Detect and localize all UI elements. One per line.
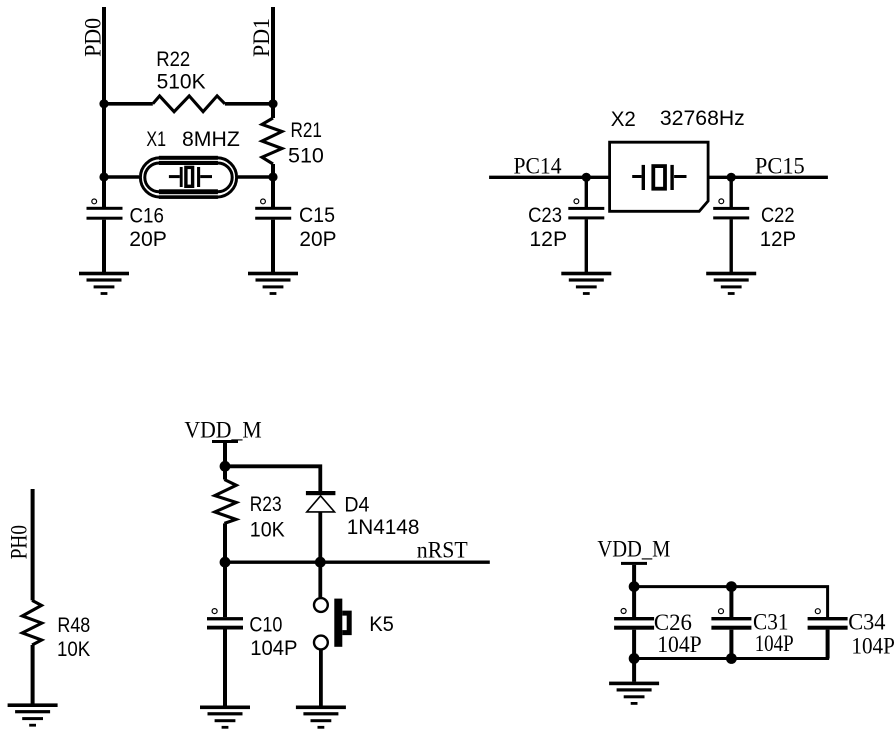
- svg-text:VDD_M: VDD_M: [184, 418, 261, 443]
- C34 ref label: [848, 610, 886, 635]
- ground below C23: [561, 272, 611, 295]
- svg-text:510: 510: [288, 144, 324, 168]
- C26 ref label: [654, 610, 692, 635]
- ground below C26: [609, 682, 659, 705]
- C31 value 104P: [755, 631, 794, 656]
- diode D4: [306, 491, 336, 562]
- svg-text:PD1: PD1: [249, 18, 274, 57]
- junction PC14/C23: [582, 173, 591, 182]
- capacitor C26: [614, 587, 654, 659]
- svg-text:R22: R22: [156, 47, 190, 71]
- svg-text:32768Hz: 32768Hz: [660, 106, 745, 130]
- wire PD1 vertical top: [271, 7, 275, 118]
- R23 ref label: [250, 492, 282, 516]
- resistor R23: [215, 466, 237, 562]
- wire nRST: [225, 561, 490, 564]
- C22 ref label: [761, 203, 795, 227]
- svg-text:C16: C16: [130, 203, 164, 227]
- wire VDD to D4 top: [225, 466, 320, 491]
- ground below K5: [296, 706, 346, 729]
- C15 value 20P: [299, 227, 336, 251]
- svg-text:20P: 20P: [299, 227, 336, 251]
- capacitor C16: [87, 199, 123, 272]
- crystal X2: [610, 142, 709, 211]
- wire PC14: [489, 176, 609, 179]
- node PD0: [81, 18, 106, 57]
- capacitor C34: [808, 609, 848, 659]
- ground below C16: [79, 272, 129, 295]
- R21 value 510: [288, 144, 324, 168]
- svg-text:C15: C15: [299, 203, 335, 227]
- svg-text:R48: R48: [57, 613, 90, 637]
- R21 ref label: [291, 118, 322, 142]
- R48 value 10K: [57, 637, 91, 661]
- C16 value 20P: [129, 227, 167, 251]
- svg-text:VDD_M: VDD_M: [597, 537, 670, 562]
- ground below R48: [8, 703, 58, 726]
- R22 ref label: [156, 47, 190, 71]
- node PD1: [249, 18, 274, 57]
- svg-text:12P: 12P: [760, 227, 796, 251]
- junction rail/gnd: [629, 653, 640, 664]
- junction PC15/C22: [727, 173, 736, 182]
- wire PD0 vertical: [102, 7, 106, 208]
- R48 ref label: [57, 613, 90, 637]
- svg-text:104P: 104P: [851, 634, 895, 659]
- svg-text:8MHZ: 8MHZ: [182, 127, 240, 151]
- resistor R48: [22, 600, 42, 645]
- X2 value 32768Hz: [660, 106, 745, 130]
- svg-text:R21: R21: [291, 118, 322, 142]
- capacitor C31: [711, 587, 751, 659]
- X2 ref label: [611, 107, 636, 131]
- svg-text:C23: C23: [528, 203, 562, 227]
- svg-text:104P: 104P: [657, 632, 702, 657]
- svg-text:104P: 104P: [250, 636, 297, 660]
- svg-text:PC14: PC14: [514, 153, 562, 178]
- C15 ref label: [299, 203, 335, 227]
- junction D4/K5/nRST: [315, 557, 326, 568]
- node PH0: [6, 525, 31, 559]
- capacitor C23: [568, 177, 604, 272]
- svg-text:C34: C34: [848, 610, 886, 635]
- wire R48 to ground: [31, 645, 35, 704]
- wire PH0 vertical: [31, 489, 35, 600]
- svg-text:PH0: PH0: [6, 525, 31, 559]
- junction rail/C31: [726, 581, 737, 592]
- node nRST: [417, 537, 468, 562]
- wire X1 left lead: [104, 175, 139, 179]
- svg-text:C10: C10: [249, 613, 282, 637]
- switch K5: [314, 562, 349, 705]
- junction X1 left: [99, 172, 108, 181]
- R23 value 10K: [250, 518, 286, 542]
- svg-text:20P: 20P: [129, 227, 167, 251]
- C34 value 104P: [851, 634, 895, 659]
- svg-text:X2: X2: [611, 107, 636, 131]
- X1 value 8MHZ: [182, 127, 240, 151]
- wire X1 right lead: [238, 175, 273, 179]
- svg-text:10K: 10K: [250, 518, 286, 542]
- junction rail/C26: [629, 581, 640, 592]
- C26 value 104P: [657, 632, 702, 657]
- svg-text:K5: K5: [369, 612, 394, 636]
- capacitor C22: [713, 177, 749, 272]
- wire GND rail bottom: [634, 630, 828, 659]
- C10 ref label: [249, 613, 282, 637]
- ground below C22: [706, 272, 756, 295]
- resistor R22: [153, 96, 225, 112]
- K5 ref label: [369, 612, 394, 636]
- C23 value 12P: [529, 227, 567, 251]
- wire R21 bottom to C15: [271, 164, 275, 208]
- C10 value 104P: [250, 636, 297, 660]
- capacitor C15: [255, 199, 291, 272]
- D4 value 1N4148: [347, 515, 420, 539]
- power VDD_M (reset): [184, 418, 261, 467]
- junction R23/C10/nRST: [220, 557, 231, 568]
- wire PC15: [708, 176, 828, 179]
- ground below C10: [200, 706, 250, 729]
- wire R22 row: [104, 102, 273, 106]
- junction VDD/R23/D4: [220, 461, 231, 472]
- svg-text:510K: 510K: [157, 70, 207, 94]
- node PC15: [755, 153, 805, 178]
- svg-text:1N4148: 1N4148: [347, 515, 420, 539]
- svg-text:D4: D4: [344, 493, 369, 517]
- C23 ref label: [528, 203, 562, 227]
- R22 value 510K: [157, 70, 207, 94]
- svg-text:nRST: nRST: [417, 537, 468, 562]
- junction X1 right: [268, 172, 277, 181]
- power VDD_M (decoupling): [597, 537, 670, 587]
- wire C26 to ground: [632, 659, 636, 682]
- junction at PD0/R22: [99, 99, 108, 108]
- D4 ref label: [344, 493, 369, 517]
- svg-text:104P: 104P: [755, 631, 794, 656]
- X1 ref label: [146, 127, 166, 151]
- resistor R21: [262, 118, 282, 164]
- C31 ref label: [753, 610, 789, 635]
- svg-text:X1: X1: [146, 127, 166, 151]
- junction rail/C31 bottom: [726, 653, 737, 664]
- svg-text:R23: R23: [250, 492, 282, 516]
- svg-text:PC15: PC15: [755, 153, 805, 178]
- svg-text:C22: C22: [761, 203, 795, 227]
- capacitor C10: [207, 562, 243, 705]
- crystal X1: [140, 156, 236, 199]
- node PC14: [514, 153, 562, 178]
- ground below C15: [248, 272, 298, 295]
- wire VDD rail top: [634, 587, 828, 617]
- svg-text:PD0: PD0: [81, 18, 106, 57]
- svg-text:12P: 12P: [529, 227, 567, 251]
- svg-text:10K: 10K: [57, 637, 91, 661]
- junction at PD1/R22: [268, 99, 277, 108]
- C22 value 12P: [760, 227, 796, 251]
- C16 ref label: [130, 203, 164, 227]
